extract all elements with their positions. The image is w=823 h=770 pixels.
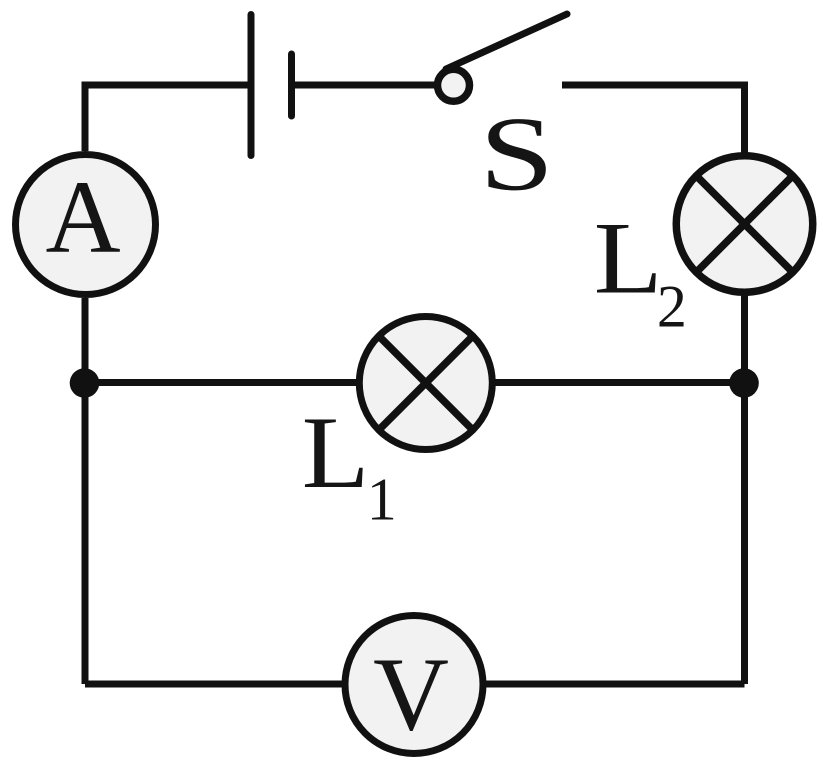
lamp L2 (676, 156, 813, 293)
wire (right side: lamp L2 to bottom-right corner) (741, 295, 748, 684)
wire (middle left: junction to lamp L1) (85, 379, 357, 386)
svg-text:S: S (479, 96, 554, 213)
wire (left side: ammeter to bottom-left corner) (82, 298, 89, 684)
svg-text:1: 1 (367, 467, 397, 533)
svg-text:A: A (45, 160, 120, 275)
node (right junction) (729, 368, 759, 398)
wire (bottom left: corner to voltmeter) (85, 681, 344, 688)
lamp L1 (359, 317, 492, 450)
wire (bottom right: voltmeter to corner) (484, 681, 745, 688)
node (left junction) (70, 368, 100, 398)
wire (top-left: battery to ammeter top) (85, 85, 248, 151)
svg-text:V: V (373, 636, 449, 753)
svg-text:L: L (594, 202, 663, 316)
svg-text:L: L (302, 396, 370, 510)
ammeter A (16, 155, 156, 295)
switch S (438, 14, 568, 101)
battery B1 (251, 15, 292, 156)
svg-text:2: 2 (657, 274, 687, 340)
wire (battery to switch) (292, 82, 437, 89)
voltmeter V (345, 616, 483, 754)
wire (switch to top-right corner, down to lamp L2) (562, 85, 745, 153)
wire (middle right: lamp L1 to junction) (495, 379, 745, 386)
